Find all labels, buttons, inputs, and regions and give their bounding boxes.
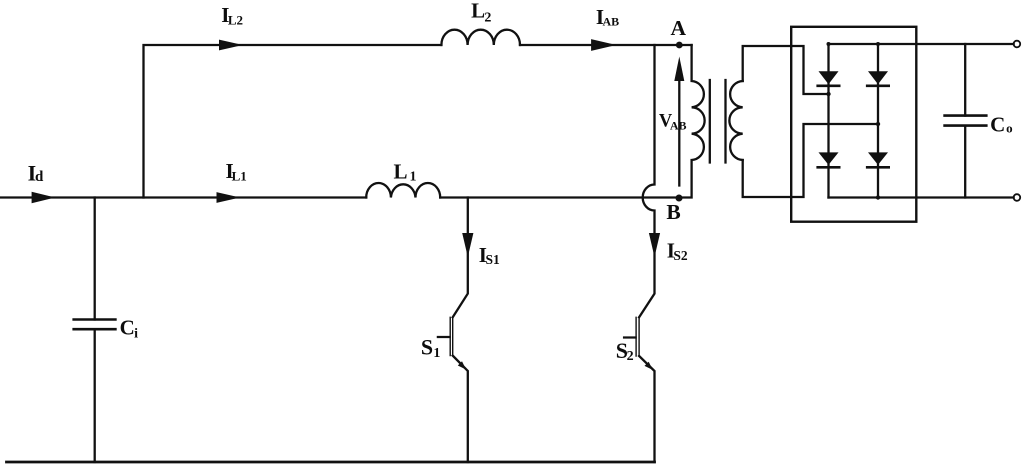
svg-text:A: A [671,16,687,40]
svg-text:i: i [134,327,138,342]
svg-text:S: S [421,335,433,360]
svg-text:o: o [1006,121,1013,136]
svg-text:2: 2 [484,10,491,25]
svg-text:AB: AB [670,119,687,133]
svg-text:S2: S2 [673,248,688,263]
svg-text:2: 2 [627,349,634,364]
svg-text:L: L [394,159,408,183]
svg-text:C: C [120,316,135,340]
svg-text:C: C [990,112,1005,136]
svg-text:1: 1 [433,346,440,361]
svg-text:L2: L2 [228,13,243,28]
svg-text:AB: AB [603,15,620,29]
svg-text:d: d [35,169,44,185]
svg-text:L: L [471,0,485,23]
svg-text:B: B [666,200,680,224]
svg-text:S1: S1 [486,252,501,267]
svg-text:L1: L1 [232,168,247,183]
svg-text:1: 1 [410,169,417,184]
